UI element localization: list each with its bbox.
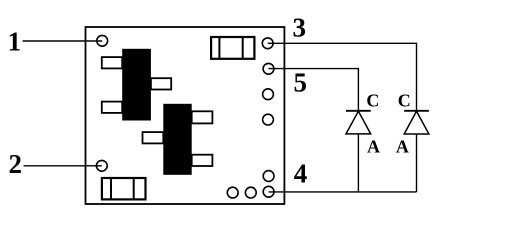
svg-text:2: 2 <box>8 149 22 179</box>
wire D1 anode to bottom bus <box>357 134 359 192</box>
diode D1 <box>346 111 371 134</box>
wire pad 5 to diode D1 cathode <box>269 69 359 111</box>
svg-text:A: A <box>396 136 409 156</box>
svg-text:3: 3 <box>292 12 306 42</box>
transistor Q1 <box>102 49 171 121</box>
pad 3 <box>262 38 273 49</box>
pad 1 <box>97 35 108 46</box>
svg-text:4: 4 <box>294 159 308 189</box>
pad (unlabeled, third in column) <box>263 89 274 100</box>
wire pad 3 to diode D2 cathode <box>268 43 417 110</box>
wire D2 anode to bottom bus <box>416 134 418 192</box>
wire from label 1 to pad 1 <box>23 40 103 42</box>
diode D2 <box>404 111 429 134</box>
pad (unlabeled, fourth in column) <box>263 114 274 125</box>
pad (unlabeled, above pad 4) <box>263 171 274 182</box>
board outline <box>86 27 285 204</box>
pad 2 <box>96 160 107 171</box>
pad (bottom row, left) <box>227 187 238 198</box>
resistor footprint R2 (bottom left) <box>102 178 146 199</box>
svg-text:C: C <box>398 90 411 110</box>
svg-text:5: 5 <box>293 67 307 97</box>
resistor footprint R1 (top right) <box>211 37 254 59</box>
wire pad 4 bottom bus <box>269 191 417 193</box>
wire from label 2 to pad 2 <box>24 165 102 167</box>
pad 5 <box>263 63 274 74</box>
svg-text:A: A <box>367 136 380 156</box>
transistor Q2 <box>143 104 213 175</box>
pad (bottom row, middle) <box>245 187 256 198</box>
svg-text:C: C <box>366 90 379 110</box>
pad 4 <box>263 186 274 197</box>
svg-text:1: 1 <box>8 26 22 56</box>
